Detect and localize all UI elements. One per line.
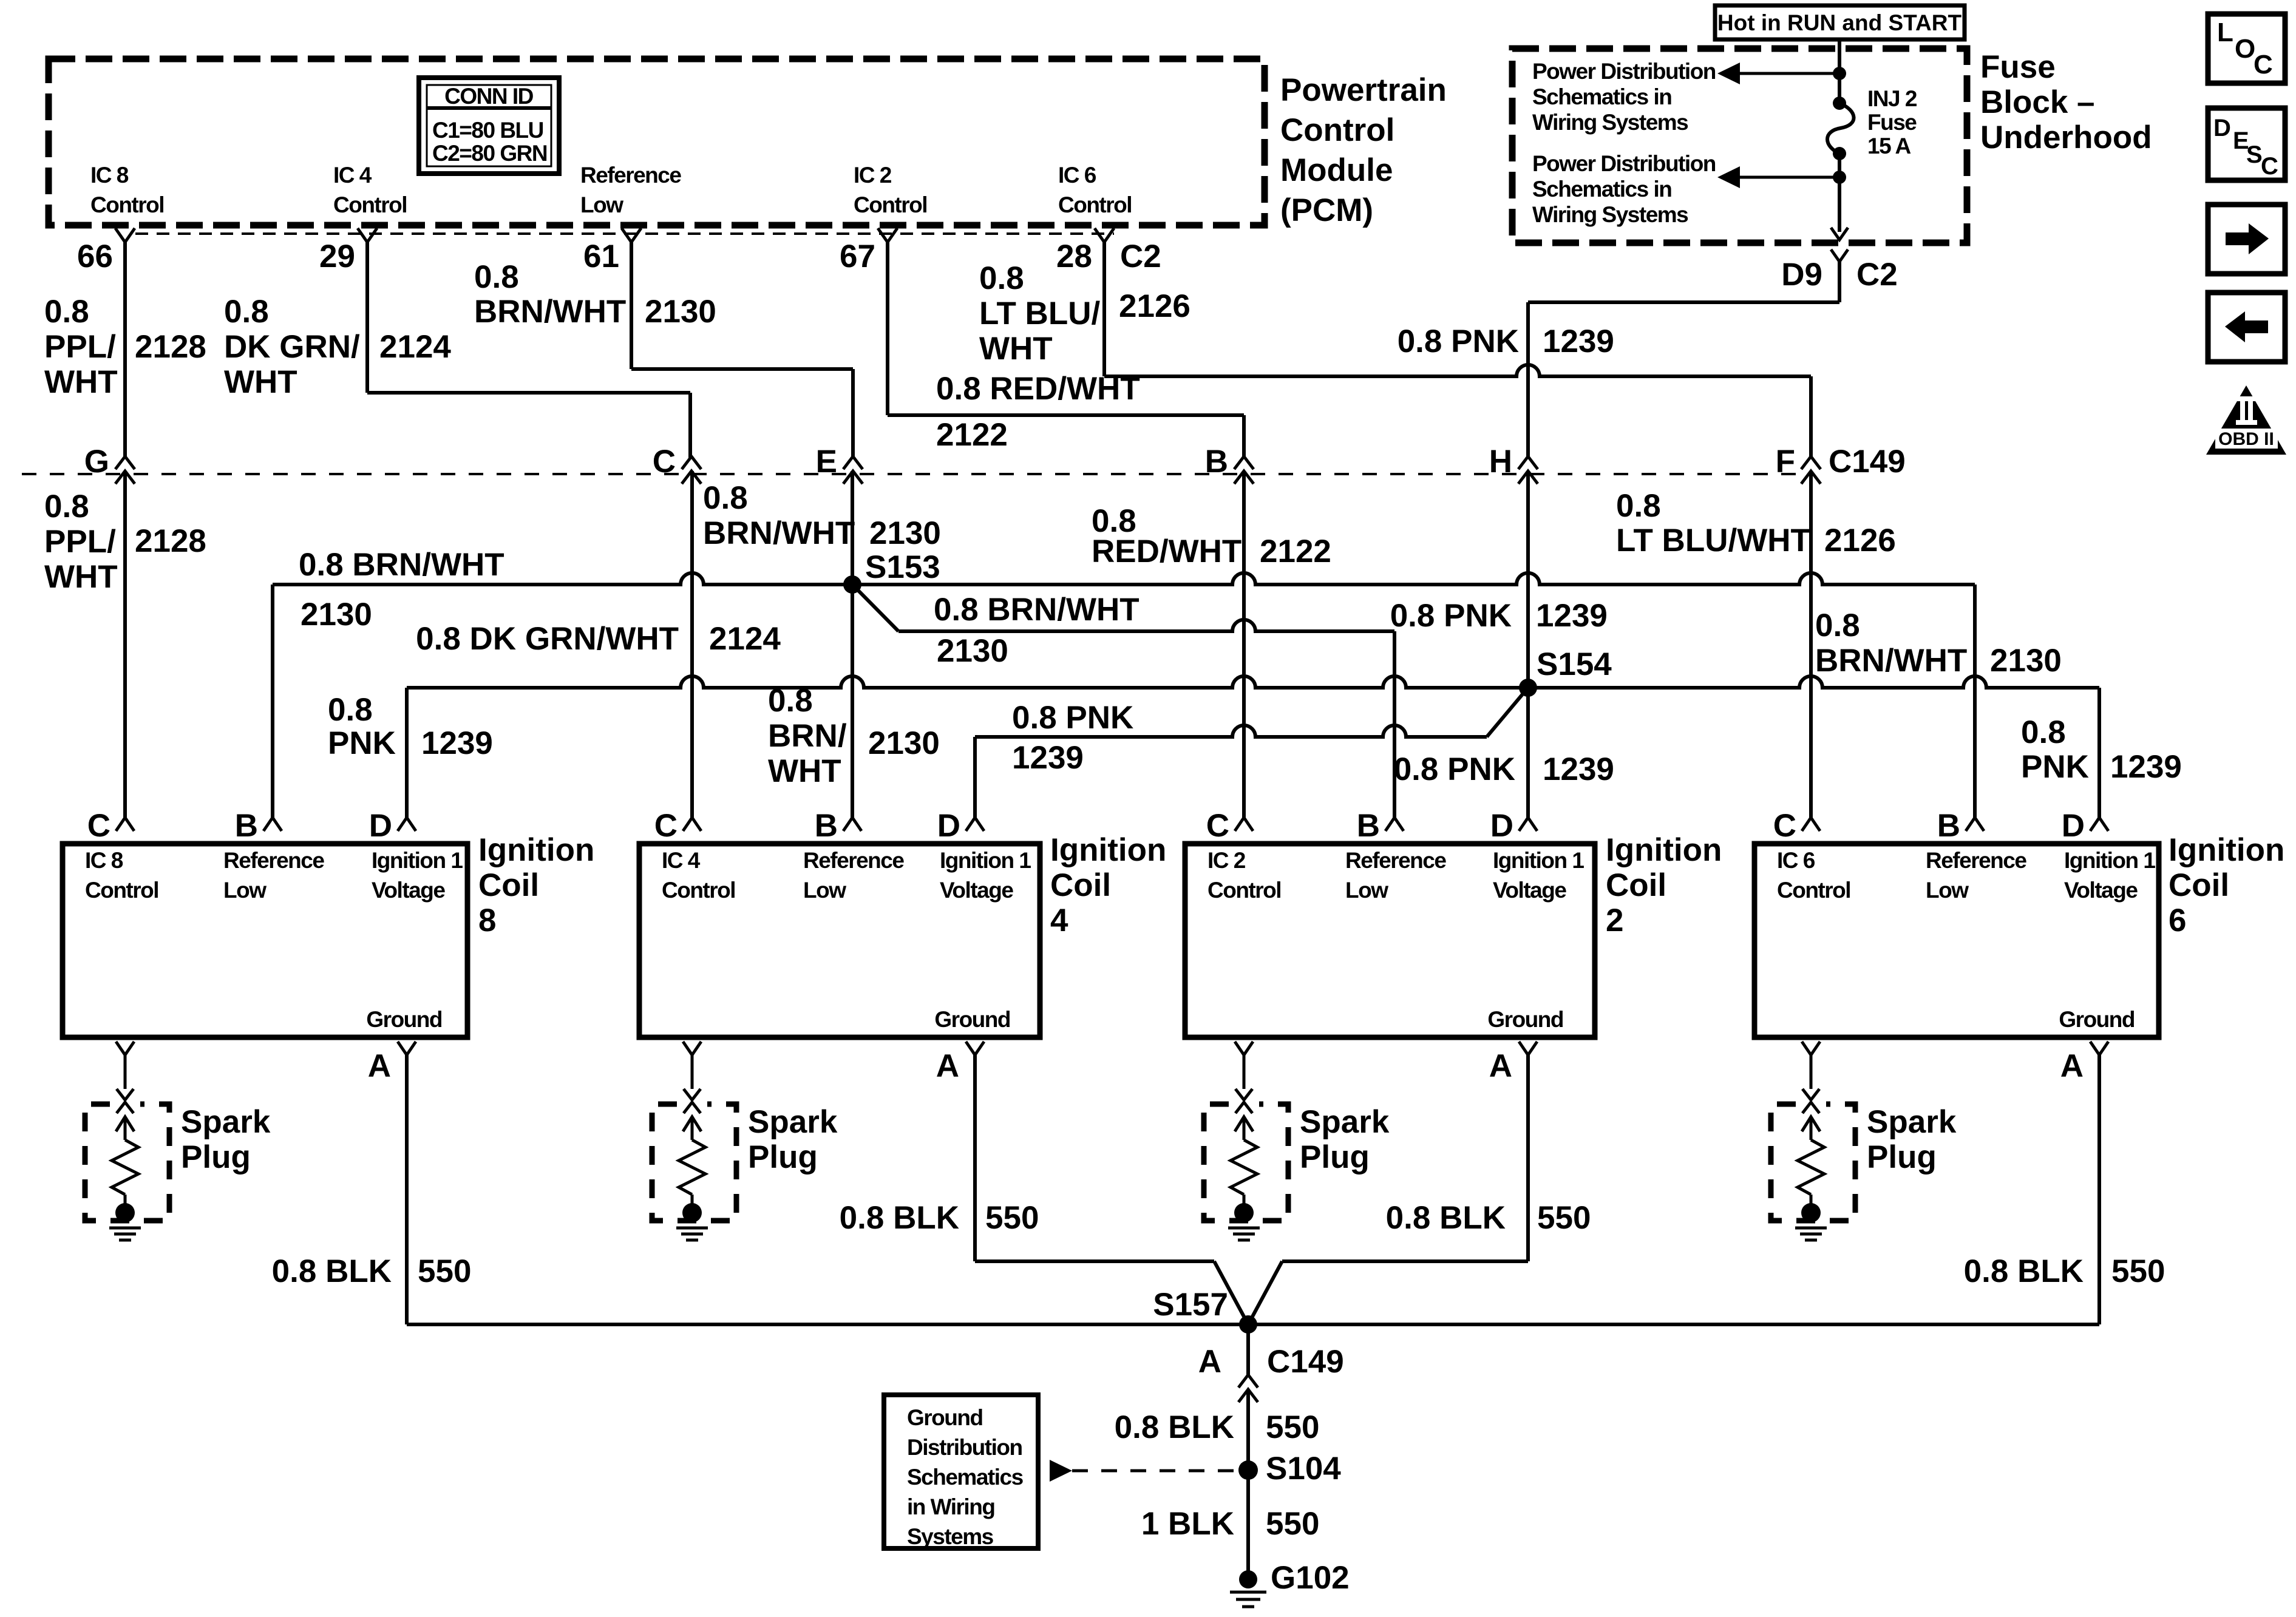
icon OBD II triangle: [2206, 385, 2286, 455]
svg-text:RED/WHT: RED/WHT: [1092, 534, 1241, 569]
svg-text:B: B: [815, 808, 838, 844]
svg-text:Coil: Coil: [478, 867, 539, 903]
svg-text:C: C: [2254, 50, 2273, 80]
coil 2 spark plug resistor: [1231, 1140, 1257, 1195]
splice S157: [1239, 1315, 1257, 1334]
coil 4 spark plug dashed box: [652, 1104, 736, 1221]
svg-text:Plug: Plug: [181, 1139, 251, 1175]
svg-text:B: B: [1357, 808, 1380, 844]
coil 8 spark plug resistor: [112, 1140, 138, 1195]
svg-text:D: D: [937, 808, 960, 844]
Fuse block dashed box: [1512, 49, 1967, 243]
svg-text:Ignition: Ignition: [1606, 832, 1722, 868]
svg-text:Power Distribution: Power Distribution: [1532, 151, 1716, 176]
wire G to coil8 C: [123, 471, 127, 818]
svg-text:A: A: [1198, 1344, 1221, 1380]
svg-text:2124: 2124: [709, 621, 781, 657]
svg-text:0.8 DK GRN/WHT: 0.8 DK GRN/WHT: [416, 621, 679, 657]
wire coil2 A down: [1526, 1055, 1530, 1261]
svg-text:Ignition: Ignition: [1050, 832, 1166, 868]
bus PNK 1239: [407, 676, 2099, 688]
svg-text:S157: S157: [1153, 1287, 1228, 1323]
ignition coil 6 box: [1754, 844, 2159, 1037]
svg-text:0.8 PNK: 0.8 PNK: [1398, 324, 1519, 359]
coil 8 pin B fork: [263, 818, 282, 831]
svg-text:Distribution: Distribution: [907, 1435, 1022, 1460]
coil 2 spark plug inline connector: [1235, 1089, 1252, 1100]
PCM pin 29 connector: [358, 228, 377, 242]
svg-text:C2: C2: [1856, 257, 1898, 293]
coil 2 spark plug dashed box: [1204, 1104, 1288, 1221]
svg-text:D: D: [2062, 808, 2085, 844]
coil 6 spark plug dashed box: [1771, 1104, 1855, 1221]
connector D9 chevron: [1831, 249, 1848, 262]
svg-text:6: 6: [2169, 903, 2186, 938]
svg-text:0.8: 0.8: [474, 259, 519, 295]
wire bus to coil6 D: [2097, 688, 2101, 818]
svg-text:Control: Control: [90, 192, 164, 217]
svg-text:DK GRN/: DK GRN/: [224, 329, 360, 365]
svg-text:Fuse: Fuse: [1867, 110, 1917, 135]
svg-text:550: 550: [985, 1200, 1039, 1236]
coil 2 pin C fork: [1235, 818, 1253, 831]
svg-text:28: 28: [1056, 239, 1092, 274]
svg-text:0.8 BLK: 0.8 BLK: [1964, 1253, 2084, 1289]
coil 6 spark plug ground dot: [1801, 1203, 1821, 1222]
coil 8 spark plug ground dot: [115, 1203, 135, 1222]
svg-text:Plug: Plug: [1300, 1139, 1370, 1175]
svg-text:C: C: [1206, 808, 1229, 844]
svg-text:Spark: Spark: [181, 1104, 271, 1140]
junction dot fuse bottom: [1833, 171, 1846, 184]
junction dot fuse lower: [1833, 147, 1846, 160]
svg-text:Spark: Spark: [1300, 1104, 1390, 1140]
svg-text:D9: D9: [1781, 257, 1822, 293]
svg-text:Control: Control: [333, 192, 407, 217]
arrow to power distribution 2: [1737, 176, 1839, 179]
svg-text:Underhood: Underhood: [1980, 120, 2152, 155]
svg-text:2128: 2128: [135, 329, 206, 365]
svg-text:4: 4: [1050, 903, 1068, 938]
svg-text:PNK: PNK: [2021, 749, 2089, 785]
bus PNK 1239 lower branch: [975, 725, 1487, 737]
PCM pin 66 connector: [115, 228, 135, 242]
coil 6 spark plug inline connector: [1802, 1089, 1819, 1100]
icon LOC box: [2208, 14, 2285, 83]
svg-text:WHT: WHT: [768, 753, 841, 789]
svg-text:0.8 BRN/WHT: 0.8 BRN/WHT: [299, 547, 504, 583]
svg-text:Ignition 1: Ignition 1: [1493, 848, 1584, 873]
svg-text:IC 4: IC 4: [333, 163, 372, 188]
svg-text:1 BLK: 1 BLK: [1141, 1506, 1234, 1542]
svg-text:0.8 BLK: 0.8 BLK: [1386, 1200, 1506, 1236]
svg-text:1239: 1239: [1536, 598, 1608, 634]
svg-text:2122: 2122: [936, 417, 1008, 453]
wire to S104: [1246, 1389, 1250, 1579]
svg-text:A: A: [1489, 1048, 1512, 1084]
coil 8 pin D fork: [398, 818, 416, 831]
svg-text:67: 67: [840, 239, 875, 274]
wire coil8 A down: [405, 1055, 409, 1324]
svg-text:Control: Control: [662, 878, 735, 903]
connector C149 ground pin A: [1238, 1375, 1258, 1388]
svg-text:550: 550: [1537, 1200, 1591, 1236]
svg-text:Schematics in: Schematics in: [1532, 84, 1671, 109]
svg-text:2: 2: [1606, 903, 1623, 938]
svg-text:Ignition 1: Ignition 1: [2064, 848, 2155, 873]
svg-text:Fuse: Fuse: [1980, 49, 2056, 85]
svg-text:Reference: Reference: [223, 848, 324, 873]
svg-text:Control: Control: [1207, 878, 1281, 903]
svg-text:Low: Low: [1926, 878, 1969, 903]
svg-text:Wiring Systems: Wiring Systems: [1532, 202, 1688, 227]
PCM pin 67 connector: [878, 228, 897, 242]
coil 4 spark plug arrow: [683, 1117, 701, 1131]
coil 8 spark plug wire lower: [124, 1195, 127, 1213]
CONN ID box: [419, 78, 559, 174]
svg-text:IC 2: IC 2: [854, 163, 892, 188]
svg-text:0.8 PNK: 0.8 PNK: [1394, 751, 1515, 787]
svg-text:1239: 1239: [1543, 751, 1614, 787]
coil 2 spark plug wire lower: [1243, 1195, 1246, 1213]
svg-text:Reference: Reference: [1926, 848, 2026, 873]
svg-text:WHT: WHT: [44, 364, 118, 400]
coil 4 spark plug inline connector: [684, 1089, 701, 1100]
svg-text:0.8: 0.8: [224, 294, 269, 330]
fuse INJ2 element: [1827, 103, 1854, 154]
splice S153: [843, 575, 861, 594]
svg-text:PPL/: PPL/: [44, 329, 116, 365]
wire H to splice S154: [1526, 471, 1530, 688]
svg-text:A: A: [936, 1048, 959, 1084]
svg-text:Voltage: Voltage: [940, 878, 1013, 903]
coil 4 spark plug wire lower: [691, 1195, 694, 1213]
svg-text:A: A: [368, 1048, 391, 1084]
PCM connector C1/C2 dashed line: [135, 232, 1114, 235]
svg-text:G: G: [84, 444, 109, 480]
wire E S153 to coil4 B: [851, 585, 854, 818]
svg-text:IC 8: IC 8: [85, 848, 123, 873]
svg-text:Reference: Reference: [580, 163, 681, 188]
coil 4 spark plug ground: [676, 1227, 708, 1230]
svg-text:2128: 2128: [135, 523, 206, 559]
coil 2 pin D fork: [1519, 818, 1537, 831]
svg-text:Block –: Block –: [1980, 84, 2095, 120]
svg-text:BRN/WHT: BRN/WHT: [703, 515, 855, 551]
Hot in RUN and START box: [1715, 5, 1965, 39]
coil 6 spark plug arrow: [1802, 1117, 1820, 1131]
connector C149 pin B: [1234, 456, 1254, 469]
svg-text:Low: Low: [580, 192, 623, 217]
coil 2 spark plug ground dot: [1234, 1203, 1254, 1222]
coil 8 pin A fork: [398, 1042, 416, 1055]
wire hot box to fuse: [1838, 39, 1841, 103]
ground G102 dot: [1239, 1570, 1257, 1588]
wire IC4 pin 29 down: [365, 242, 369, 393]
svg-text:2126: 2126: [1824, 523, 1896, 558]
svg-text:Coil: Coil: [1050, 867, 1111, 903]
svg-text:Control: Control: [854, 192, 927, 217]
svg-text:0.8 BLK: 0.8 BLK: [840, 1200, 959, 1236]
svg-text:WHT: WHT: [44, 559, 118, 595]
svg-text:Voltage: Voltage: [1493, 878, 1566, 903]
ground distribution box: [884, 1395, 1038, 1548]
svg-text:Powertrain: Powertrain: [1280, 72, 1447, 108]
svg-text:S154: S154: [1537, 646, 1612, 682]
svg-text:Plug: Plug: [1867, 1139, 1937, 1175]
svg-text:BRN/WHT: BRN/WHT: [1815, 643, 1967, 679]
bus BRN/WHT 2130: [273, 573, 1975, 585]
svg-text:CONN ID: CONN ID: [444, 84, 534, 109]
svg-text:C: C: [2261, 153, 2278, 180]
wire branch to coil4 D: [973, 737, 977, 818]
svg-text:Coil: Coil: [1606, 867, 1666, 903]
svg-text:0.8: 0.8: [1815, 608, 1860, 643]
svg-text:Low: Low: [803, 878, 846, 903]
svg-text:in Wiring: in Wiring: [907, 1494, 994, 1519]
svg-text:BRN/WHT: BRN/WHT: [474, 294, 626, 330]
coil 2 spark plug wire upper: [1235, 1042, 1253, 1055]
coil 4 spark plug ground dot: [682, 1203, 702, 1222]
svg-text:PNK: PNK: [328, 725, 396, 761]
svg-text:Hot in RUN and START: Hot in RUN and START: [1717, 10, 1962, 35]
svg-text:S153: S153: [865, 549, 940, 585]
svg-text:IC 8: IC 8: [90, 163, 129, 188]
coil 6 pin D fork: [2090, 818, 2108, 831]
ground distribution dashed arrow: [1050, 1460, 1072, 1482]
icon DESC box: [2208, 108, 2285, 180]
svg-text:OBD II: OBD II: [2218, 429, 2274, 449]
splice S154: [1519, 679, 1537, 697]
svg-text:Ground: Ground: [907, 1405, 983, 1430]
splice S104: [1238, 1460, 1258, 1480]
svg-text:1239: 1239: [1012, 740, 1084, 776]
svg-text:1239: 1239: [2110, 749, 2182, 785]
wire H down to C149: [1526, 302, 1530, 458]
svg-text:550: 550: [1266, 1506, 1319, 1542]
connector C149 pin C: [682, 456, 701, 469]
svg-text:O: O: [2235, 34, 2255, 64]
svg-text:Systems: Systems: [907, 1524, 994, 1549]
svg-text:Ground: Ground: [2059, 1007, 2135, 1032]
svg-text:Coil: Coil: [2169, 867, 2229, 903]
coil 6 pin A fork: [2090, 1042, 2108, 1055]
svg-text:Module: Module: [1280, 152, 1393, 188]
svg-text:H: H: [1489, 444, 1512, 480]
coil 8 spark plug ground: [109, 1227, 141, 1230]
svg-text:D: D: [2213, 115, 2230, 141]
svg-text:2130: 2130: [868, 725, 940, 761]
svg-text:IC 6: IC 6: [1058, 163, 1096, 188]
svg-text:IC 4: IC 4: [662, 848, 701, 873]
svg-text:2126: 2126: [1119, 288, 1190, 324]
wire S153 branch diagonal: [852, 585, 898, 631]
svg-text:C149: C149: [1829, 444, 1906, 480]
svg-text:Voltage: Voltage: [372, 878, 445, 903]
svg-text:2130: 2130: [1990, 643, 2062, 679]
wire IC8 pin 66 down: [123, 242, 127, 458]
wire bus to coil8 B: [271, 585, 274, 818]
svg-text:550: 550: [2111, 1253, 2165, 1289]
arrow to power distribution 1: [1737, 72, 1839, 75]
svg-text:LT BLU/WHT: LT BLU/WHT: [1616, 523, 1810, 558]
svg-text:0.8 BLK: 0.8 BLK: [1115, 1409, 1234, 1445]
svg-text:2124: 2124: [379, 329, 451, 365]
ground G102 symbol: [1230, 1591, 1266, 1594]
svg-text:BRN/: BRN/: [768, 718, 847, 754]
svg-text:0.8: 0.8: [44, 489, 89, 524]
svg-text:2122: 2122: [1260, 534, 1331, 569]
svg-text:Control: Control: [1777, 878, 1850, 903]
coil 4 spark plug wire upper: [683, 1042, 701, 1055]
svg-text:0.8: 0.8: [44, 294, 89, 330]
svg-text:Ignition: Ignition: [478, 832, 594, 868]
coil 2 spark plug arrow: [1235, 1117, 1253, 1131]
svg-text:IC 2: IC 2: [1207, 848, 1246, 873]
svg-text:Reference: Reference: [1345, 848, 1446, 873]
coil 6 pin B fork: [1966, 818, 1984, 831]
fuse output chevron inside: [1831, 228, 1848, 240]
svg-text:Ignition 1: Ignition 1: [940, 848, 1031, 873]
coil 8 spark plug dashed box: [85, 1104, 169, 1221]
coil 2 spark plug ground: [1228, 1227, 1260, 1230]
svg-text:B: B: [1937, 808, 1960, 844]
svg-text:Ground: Ground: [366, 1007, 442, 1032]
svg-text:C1=80 BLU: C1=80 BLU: [432, 118, 543, 143]
svg-text:15 A: 15 A: [1867, 134, 1911, 158]
svg-text:550: 550: [1266, 1409, 1319, 1445]
junction dot fuse top: [1833, 67, 1846, 80]
svg-text:L: L: [2217, 18, 2233, 47]
svg-text:1239: 1239: [421, 725, 493, 761]
connector C149 pin F: [1801, 456, 1821, 469]
coil 8 pin C fork: [116, 818, 134, 831]
svg-text:S: S: [2246, 141, 2262, 168]
svg-text:61: 61: [583, 239, 619, 274]
coil 4 spark plug resistor: [679, 1140, 705, 1195]
svg-text:0.8: 0.8: [703, 480, 748, 516]
coil 8 spark plug arrow: [116, 1117, 134, 1131]
svg-text:Wiring Systems: Wiring Systems: [1532, 110, 1688, 135]
wire B to coil2 C: [1242, 471, 1246, 818]
svg-text:(PCM): (PCM): [1280, 192, 1373, 228]
ignition coil 8 box: [63, 844, 467, 1037]
svg-text:PPL/: PPL/: [44, 524, 116, 560]
svg-text:C149: C149: [1267, 1344, 1344, 1380]
wire branch to coil2 B: [898, 620, 1394, 631]
wire IC2 pin 67 down: [886, 242, 889, 415]
svg-text:C: C: [653, 444, 676, 480]
coil 4 pin C fork: [683, 818, 701, 831]
svg-text:0.8 BLK: 0.8 BLK: [272, 1253, 392, 1289]
connector C149 dashed line: [22, 473, 1811, 475]
svg-text:B: B: [1205, 444, 1228, 480]
coil 2 pin B fork: [1385, 818, 1404, 831]
coil 6 pin C fork: [1802, 818, 1820, 831]
coil 6 spark plug ground: [1795, 1227, 1827, 1230]
svg-text:0.8: 0.8: [2021, 714, 2066, 750]
svg-text:0.8: 0.8: [328, 692, 373, 728]
wire C to coil4 C: [690, 471, 694, 818]
wire coil6 A down: [2097, 1055, 2101, 1324]
svg-text:Voltage: Voltage: [2064, 878, 2138, 903]
wire coil4 A down: [973, 1055, 977, 1261]
wire fuse horizontal to H: [1528, 300, 1839, 304]
svg-text:2130: 2130: [869, 515, 941, 551]
svg-text:Spark: Spark: [748, 1104, 838, 1140]
coil 8 spark plug inline connector: [117, 1089, 134, 1100]
ground bus: [407, 1323, 2099, 1326]
svg-text:INJ 2: INJ 2: [1867, 86, 1917, 111]
svg-text:Control: Control: [85, 878, 158, 903]
coil 6 spark plug wire upper: [1802, 1042, 1820, 1055]
wire ref low pin 61 down: [630, 242, 633, 369]
wire S157 down: [1246, 1324, 1250, 1375]
svg-text:2130: 2130: [937, 633, 1008, 669]
svg-text:C: C: [1773, 808, 1796, 844]
svg-text:C2=80 GRN: C2=80 GRN: [432, 141, 547, 166]
coil 6 spark plug wire lower: [1810, 1195, 1813, 1213]
svg-text:D: D: [1490, 808, 1513, 844]
svg-text:C: C: [87, 808, 110, 844]
coil 4 pin A fork: [966, 1042, 984, 1055]
icon back arrow box: [2208, 293, 2285, 362]
svg-text:G102: G102: [1271, 1560, 1350, 1596]
coil 2 pin A fork: [1519, 1042, 1537, 1055]
svg-text:LT BLU/: LT BLU/: [979, 296, 1100, 331]
svg-text:Schematics in: Schematics in: [1532, 177, 1671, 202]
svg-text:0.8: 0.8: [979, 260, 1024, 296]
PCM pin 28 connector: [1095, 228, 1114, 242]
wire coil2 B down: [1393, 631, 1396, 818]
PCM pin 61 connector: [622, 228, 641, 242]
svg-text:Schematics: Schematics: [907, 1465, 1024, 1490]
svg-text:8: 8: [478, 903, 496, 938]
svg-text:Plug: Plug: [748, 1139, 818, 1175]
svg-text:Low: Low: [223, 878, 267, 903]
svg-text:A: A: [2060, 1048, 2084, 1084]
wire F to coil6 C: [1809, 471, 1813, 818]
coil 6 spark plug resistor: [1798, 1140, 1824, 1195]
svg-text:Control: Control: [1058, 192, 1132, 217]
svg-text:C2: C2: [1120, 239, 1161, 274]
wire S154 to coil2 D: [1526, 688, 1530, 818]
svg-text:0.8 PNK: 0.8 PNK: [1390, 598, 1512, 634]
svg-text:S104: S104: [1266, 1451, 1341, 1486]
svg-text:IC 6: IC 6: [1777, 848, 1815, 873]
svg-text:550: 550: [418, 1253, 471, 1289]
svg-text:2130: 2130: [645, 294, 716, 330]
svg-text:F: F: [1776, 444, 1795, 480]
svg-text:0.8: 0.8: [1616, 488, 1661, 524]
svg-text:66: 66: [77, 239, 113, 274]
svg-text:0.8 BRN/WHT: 0.8 BRN/WHT: [934, 592, 1140, 628]
svg-text:C: C: [654, 808, 678, 844]
svg-text:D: D: [369, 808, 392, 844]
PCM module dashed box: [49, 59, 1265, 225]
svg-text:Low: Low: [1345, 878, 1388, 903]
wire IC6 pin 28 down: [1102, 242, 1106, 376]
svg-text:Spark: Spark: [1867, 1104, 1957, 1140]
icon forward arrow box: [2208, 205, 2285, 274]
svg-text:Reference: Reference: [803, 848, 904, 873]
svg-text:Ignition: Ignition: [2169, 832, 2284, 868]
svg-text:1239: 1239: [1543, 324, 1614, 359]
connector C149 pin H: [1518, 456, 1538, 469]
svg-text:Ground: Ground: [1487, 1007, 1563, 1032]
coil 4 pin B fork: [843, 818, 861, 831]
svg-text:Ground: Ground: [934, 1007, 1010, 1032]
